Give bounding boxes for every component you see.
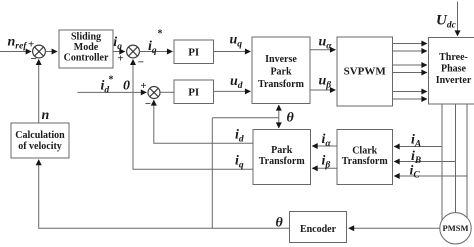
- wire phase A: [441, 104, 443, 220]
- svg-text:Transform: Transform: [258, 79, 305, 90]
- svg-text:PMSM: PMSM: [443, 223, 469, 233]
- wire gate signal 6: [393, 98, 427, 100]
- box Clark Transform: [337, 130, 393, 185]
- wire u_alpha to SVPWM: [310, 49, 335, 51]
- wire i_A sense to Clark: [394, 146, 442, 148]
- wire PMSM to Encoder: [349, 227, 440, 229]
- wire theta horizontal: [212, 117, 278, 119]
- wire gate signal 5: [393, 91, 427, 93]
- svg-text:−: −: [138, 57, 144, 69]
- svg-text:+: +: [140, 80, 146, 92]
- box Calculation of velocity: [11, 123, 69, 158]
- box Park Transform: [253, 130, 311, 185]
- wire theta riser: [211, 118, 213, 229]
- wire gate signal 1: [393, 43, 427, 45]
- wire PI1 to Inverse Park: [214, 51, 251, 53]
- wire junction to Sliding Mode Controller: [45, 51, 57, 53]
- summing junction q current: [127, 45, 140, 58]
- wire i_beta Clark to Park: [312, 167, 337, 169]
- svg-text:SVPWM: SVPWM: [344, 66, 387, 78]
- wire PI2 to Inverse Park: [214, 90, 251, 92]
- circle PMSM: [440, 213, 471, 244]
- svg-text:Transform: Transform: [259, 156, 306, 167]
- box SVPWM: [337, 37, 393, 106]
- svg-text:Calculation: Calculation: [15, 130, 65, 141]
- svg-text:Mode: Mode: [74, 42, 99, 53]
- wire phase C: [466, 104, 468, 218]
- svg-text:n: n: [42, 108, 50, 123]
- svg-text:Three-: Three-: [439, 52, 468, 63]
- summing junction d current: [148, 87, 160, 99]
- wire d junction to PI2: [160, 91, 174, 93]
- svg-text:−: −: [145, 98, 151, 110]
- box PI2: [174, 80, 214, 104]
- wire q junction to PI1: [139, 51, 172, 53]
- box Sliding Mode Controller: [59, 30, 113, 68]
- svg-text:Sliding: Sliding: [71, 32, 101, 43]
- svg-text:+: +: [117, 53, 123, 65]
- svg-text:Park: Park: [270, 67, 292, 78]
- wire U_dc input: [457, 2, 459, 36]
- wire i_alpha Clark to Park: [312, 145, 337, 147]
- box Inverse Park Transform: [252, 37, 310, 104]
- svg-text:*: *: [109, 74, 114, 85]
- svg-text:Phase: Phase: [441, 64, 467, 75]
- svg-text:*: *: [158, 29, 163, 40]
- wire gate signal 4: [393, 72, 427, 74]
- wire u_beta to SVPWM: [310, 89, 335, 91]
- box Encoder: [290, 212, 347, 243]
- summing junction speed error: [33, 45, 46, 58]
- wire i_C sense to Clark: [394, 175, 467, 177]
- wire encoder output to velocity calculation: [39, 160, 290, 229]
- svg-text:−: −: [31, 53, 37, 65]
- svg-text:PI: PI: [188, 87, 199, 99]
- svg-text:Controller: Controller: [64, 53, 109, 64]
- wire phase B: [455, 104, 457, 213]
- svg-text:Transform: Transform: [342, 156, 389, 167]
- wire i_d feedback to d junction: [154, 100, 253, 143]
- wire i_q feedback to q junction: [133, 60, 253, 170]
- svg-text:θ: θ: [287, 111, 295, 126]
- box Three-Phase Inverter: [429, 38, 474, 105]
- svg-text:0: 0: [123, 79, 130, 94]
- wire gate signal 2: [393, 50, 427, 52]
- wire n_ref input: [0, 51, 31, 53]
- svg-text:Inverse: Inverse: [265, 54, 297, 65]
- svg-text:Inverter: Inverter: [436, 75, 472, 86]
- wire i_d* reference input: [77, 91, 146, 93]
- svg-text:Encoder: Encoder: [300, 224, 337, 235]
- box PI1: [174, 40, 214, 64]
- svg-text:Park: Park: [271, 145, 293, 156]
- wire n velocity to speed junction: [38, 60, 40, 123]
- svg-text:Clark: Clark: [352, 146, 377, 157]
- svg-text:PI: PI: [188, 47, 199, 59]
- wire theta to Inverse Park: [278, 105, 280, 118]
- wire theta to Park: [278, 118, 280, 128]
- svg-text:of velocity: of velocity: [18, 141, 62, 152]
- wire gate signal 3: [393, 64, 427, 66]
- wire SMC to q summing junction: [113, 51, 125, 53]
- wire i_B sense to Clark: [394, 161, 455, 163]
